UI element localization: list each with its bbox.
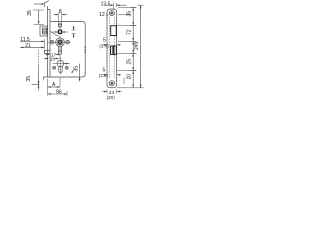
cylinder side hole right	[65, 66, 68, 69]
svg-text:20: 20	[127, 74, 133, 80]
svg-text:(20): (20)	[107, 95, 116, 100]
lock case outline	[44, 22, 86, 78]
dim 24 (20) bottom of strip	[102, 89, 122, 94]
deadbolt front	[45, 50, 50, 53]
latch opening in strip	[111, 26, 117, 36]
dim 21	[20, 47, 44, 49]
spindle square	[58, 30, 61, 33]
left bottom chain	[32, 66, 40, 91]
svg-text:72: 72	[127, 29, 133, 35]
right chain 2 (overall)	[138, 5, 144, 88]
svg-text:(3.4): (3.4)	[99, 43, 109, 48]
dim 8 top (spindle)	[53, 13, 68, 27]
slot below hub	[58, 46, 61, 54]
svg-text:35: 35	[73, 66, 79, 72]
case bottom left tick	[43, 77, 45, 81]
svg-text:A: A	[52, 82, 56, 88]
dim small top-left	[34, 1, 49, 8]
strip dashed hidden lines	[110, 17, 114, 79]
screw hole top	[109, 11, 114, 16]
centerline vertical	[59, 23, 61, 60]
svg-text:8: 8	[59, 9, 62, 15]
dim 8 square width	[52, 31, 68, 33]
right chain 1	[130, 8, 136, 88]
faceplate front view strip	[107, 9, 117, 88]
text labels	[20, 1, 110, 62]
deadbolt opening in strip	[111, 46, 117, 54]
latch leader	[51, 32, 59, 37]
dim 5 (3.4) arrows	[103, 44, 121, 46]
dashed line left of faceplate	[38, 50, 40, 66]
svg-text:96: 96	[56, 89, 62, 95]
svg-text:35: 35	[27, 10, 33, 16]
hub side hole left	[50, 40, 54, 44]
follower hub	[48, 38, 71, 47]
top hole	[58, 24, 61, 27]
svg-text:13.5: 13.5	[101, 1, 111, 7]
cylinder dim arrow right	[64, 63, 70, 65]
dim 10 row	[44, 58, 60, 60]
hidden dashes on case right edge	[84, 47, 86, 53]
leader mark	[72, 70, 75, 73]
svg-text:25: 25	[127, 59, 133, 65]
dim 8 square height (vertical right)	[72, 26, 76, 39]
euro profile cylinder	[53, 57, 70, 75]
svg-text:12: 12	[99, 12, 105, 18]
dim 13.5 top	[104, 3, 127, 9]
svg-text:35: 35	[127, 11, 133, 17]
svg-text:245: 245	[134, 41, 140, 50]
faceplate edge view	[48, 6, 51, 77]
ext line screw hole	[118, 14, 131, 16]
svg-text:(3.4): (3.4)	[99, 73, 109, 78]
dim A bottom	[48, 78, 60, 96]
inner vertical dim (cyl to bottom)	[79, 64, 81, 82]
ext tick	[123, 78, 125, 85]
dim 96 bottom	[48, 91, 67, 97]
dim 17 row	[45, 54, 60, 56]
svg-text:35: 35	[26, 76, 32, 82]
ext lines strip to chain	[117, 8, 143, 88]
dim 35 top-left	[33, 10, 44, 24]
latch bolt front	[40, 26, 48, 36]
dim 11.5	[21, 39, 45, 49]
cylinder side hole left	[53, 66, 56, 69]
hub side hole right	[66, 40, 70, 44]
svg-text:10: 10	[50, 56, 56, 62]
svg-text:11.5: 11.5	[20, 37, 30, 43]
svg-text:21: 21	[25, 43, 31, 49]
screw hole bottom	[109, 81, 114, 86]
